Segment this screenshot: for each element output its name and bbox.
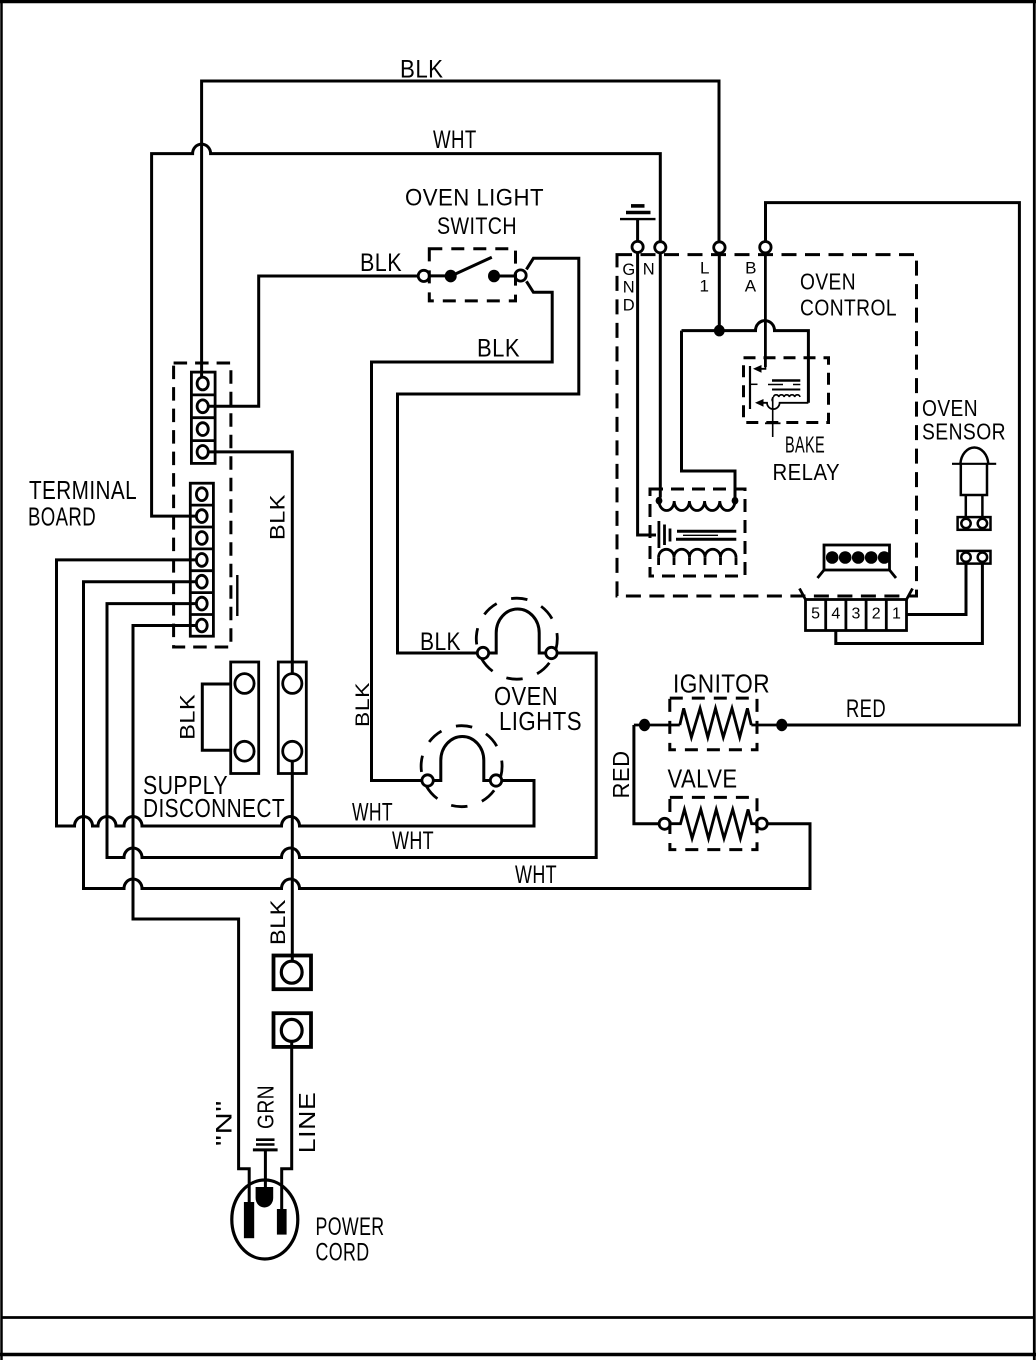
svg-text:IGNITOR: IGNITOR [673, 669, 770, 699]
relay bake relay internals [750, 253, 808, 437]
terminal GND circle [632, 241, 643, 252]
svg-text:A: A [745, 277, 757, 296]
svg-text:"N": "N" [212, 1100, 237, 1146]
terminal BA circle [760, 242, 771, 253]
wire N terminal drop to transformer primary [659, 253, 662, 497]
svg-text:RELAY: RELAY [773, 459, 841, 485]
svg-text:1: 1 [700, 277, 710, 296]
wire RED from ignitor to valve [634, 725, 659, 824]
wire GND terminal drop to transformer core ground [638, 252, 656, 535]
wire junction left drop to transformer primary right [682, 331, 736, 498]
valve dashed box [670, 797, 757, 849]
svg-text:BLK: BLK [400, 55, 444, 83]
wire N neutral from T7 to power cord [133, 626, 249, 1204]
svg-text:OVEN: OVEN [922, 395, 978, 421]
transformer primary winding [656, 497, 739, 511]
svg-text:OVEN LIGHT: OVEN LIGHT [405, 185, 544, 212]
connector P1 5-pin plug housing with dots [818, 545, 897, 578]
svg-text:WHT: WHT [352, 799, 393, 827]
wire BLK jumper loop on left fuse block [202, 684, 230, 750]
wire switch lower branch to lower oven light [372, 281, 553, 780]
wire sensor left lead to pin 1 [907, 564, 967, 615]
transformer core [676, 531, 736, 539]
svg-text:CORD: CORD [316, 1239, 370, 1267]
lamp L2 lower oven light [421, 726, 502, 807]
svg-text:BLK: BLK [177, 694, 200, 740]
terminal board lower block (7 terminals) [190, 483, 213, 636]
wire BLK top run from terminal board to L1 [202, 81, 719, 377]
wire oven control internal: junction to bake relay right side (hops BA wire) [682, 321, 809, 403]
terminal N circle [655, 242, 666, 253]
ignitor dashed box [670, 698, 757, 750]
svg-text:SENSOR: SENSOR [922, 419, 1006, 445]
svg-text:N: N [643, 261, 655, 279]
oven light switch dashed box [429, 249, 515, 301]
svg-text:BLK: BLK [267, 899, 290, 945]
wire WHT run from terminal board T2 to N (hops BLK vertical) [152, 144, 661, 516]
svg-text:BLK: BLK [420, 628, 461, 656]
supply disconnect right fuse block [278, 662, 306, 774]
svg-text:BAKE: BAKE [785, 432, 825, 458]
wire switch upper branch to upper oven light [398, 258, 579, 653]
svg-text:5: 5 [811, 606, 820, 623]
fuse holder box upper on LINE wire [274, 956, 312, 990]
svg-text:BLK: BLK [477, 335, 520, 363]
wire WHT bus1 from T4 to lower lamp return (hops 4 verticals) [57, 560, 535, 826]
svg-text:OVEN: OVEN [800, 269, 856, 295]
oven sensor lower connector [958, 551, 991, 564]
svg-text:VALVE: VALVE [668, 764, 738, 794]
transformer secondary winding [659, 549, 736, 565]
svg-text:3: 3 [852, 606, 861, 623]
svg-text:WHT: WHT [433, 126, 477, 154]
oven light switch S1 [418, 257, 526, 282]
svg-text:G: G [622, 261, 635, 279]
svg-text:BLK: BLK [267, 494, 290, 540]
oven control dashed box [617, 255, 917, 596]
ground symbol GRN lead [253, 1140, 278, 1187]
svg-text:RED: RED [846, 695, 886, 723]
transformer core ground bars [659, 521, 670, 548]
svg-text:TERMINAL: TERMINAL [29, 477, 137, 505]
wire BLK supply disconnect to line fuse [291, 761, 294, 962]
svg-text:LIGHTS: LIGHTS [499, 706, 582, 736]
wire L1 terminal drop to junction [718, 253, 721, 331]
oven sensor upper connector [958, 517, 991, 530]
terminal board dashed box [174, 363, 231, 647]
wire BA feed from BA terminal to RED ignitor line [766, 203, 1020, 725]
svg-text:RED: RED [608, 751, 634, 799]
wire WHT bus3 from T5 to valve return (hops 2 verticals) [84, 582, 811, 889]
wire LINE from fuse to power cord [282, 1042, 292, 1211]
svg-text:POWER: POWER [316, 1213, 385, 1241]
fuse holder box lower on LINE wire [274, 1013, 312, 1047]
resistor ignitor [634, 708, 788, 737]
node junction dot on L1 line [714, 325, 725, 337]
connector J1 numbered receptacle 5 4 3 2 1 [800, 589, 913, 631]
svg-text:GRN: GRN [253, 1085, 279, 1129]
svg-text:4: 4 [831, 606, 840, 623]
svg-text:DISCONNECT: DISCONNECT [143, 793, 285, 823]
oven sensor probe body [952, 448, 996, 518]
svg-text:1: 1 [892, 606, 901, 623]
svg-text:BLK: BLK [352, 682, 374, 727]
lamp L1 upper oven light [476, 598, 557, 679]
svg-text:WHT: WHT [515, 861, 557, 889]
wire sensor right lead to pin 4 [836, 564, 983, 644]
valve coil (resistor symbol) [659, 809, 767, 838]
transformer T1 dashed box [650, 489, 745, 576]
svg-text:B: B [745, 259, 757, 278]
svg-text:2: 2 [872, 606, 881, 623]
ground symbol above GND terminal [620, 206, 656, 241]
svg-text:D: D [623, 297, 635, 315]
supply disconnect left fuse block [231, 662, 259, 774]
svg-text:WHT: WHT [392, 827, 434, 855]
relay K1 bake relay dashed box [744, 358, 829, 423]
power cord plug P2 [232, 1180, 298, 1259]
terminal L1 circle [714, 242, 725, 253]
wire BLK from upper terminal T4 down to supply disconnect [209, 452, 293, 674]
terminal board upper block (4 terminals) [191, 372, 215, 463]
svg-text:CONTROL: CONTROL [800, 295, 897, 321]
terminal board tick mark [236, 575, 238, 616]
svg-text:BLK: BLK [360, 249, 402, 277]
svg-text:BOARD: BOARD [28, 504, 96, 532]
svg-text:LINE: LINE [294, 1092, 320, 1154]
svg-text:SWITCH: SWITCH [437, 213, 517, 240]
svg-text:L: L [700, 259, 710, 278]
wire WHT bus2 from T6 to upper lamp return (hops 2 verticals) [107, 604, 596, 858]
wire BLK from upper terminal T2 to oven light switch [209, 276, 419, 406]
svg-text:N: N [623, 279, 635, 297]
